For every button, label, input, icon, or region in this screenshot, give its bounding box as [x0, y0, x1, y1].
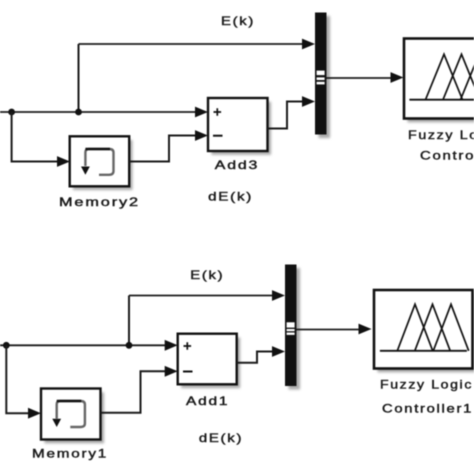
- wire E(k) bottom horizontal: [129, 290, 285, 301]
- wire Memory2 out to Add3 minus: [129, 130, 208, 161]
- block Fuzzy Logic Controller2: [404, 39, 474, 123]
- wire Mux out to Fuzzy Logic Controller: [327, 72, 404, 83]
- mux Mux2 (vertical bar): [315, 13, 330, 139]
- wire input bus to Add1 plus: [0, 340, 178, 351]
- svg-text:dE(k): dE(k): [199, 431, 243, 445]
- wire Add1 out to Mux: [237, 346, 285, 363]
- svg-text:Memory1: Memory1: [32, 446, 108, 460]
- svg-text:E(k): E(k): [190, 268, 224, 282]
- svg-text:dE(k): dE(k): [208, 189, 253, 203]
- wire input bus to Add3 plus: [0, 107, 208, 118]
- block Add3: [208, 98, 271, 155]
- svg-text:Controller1: Controller1: [382, 401, 473, 415]
- block Memory2: [70, 136, 133, 190]
- svg-text:Controller2: Controller2: [420, 149, 474, 163]
- junction dot riser: [75, 109, 82, 116]
- block Add1: [178, 334, 241, 388]
- wire Add3 out to Mux: [268, 96, 316, 128]
- svg-text:Fuzzy Logic: Fuzzy Logic: [380, 377, 473, 391]
- label Fuzzy Logic Controller1: [380, 377, 473, 415]
- wire Mux out to Fuzzy Logic Controller1: [297, 324, 372, 335]
- svg-text:E(k): E(k): [221, 14, 255, 28]
- junction dot bottom riser: [126, 342, 133, 349]
- wire vertical riser bottom: [128, 296, 130, 346]
- block Memory1: [41, 389, 104, 444]
- junction dot bottom-left: [3, 342, 10, 349]
- svg-text:Add1: Add1: [186, 394, 229, 408]
- wire feed to Memory2: [12, 112, 70, 167]
- junction dot left: [8, 109, 15, 116]
- svg-text:Fuzzy Logic: Fuzzy Logic: [408, 128, 474, 142]
- mux Mux1 (vertical bar): [285, 265, 300, 390]
- wire vertical riser to E(k): [78, 44, 80, 112]
- svg-text:Memory2: Memory2: [59, 195, 140, 209]
- wire E(k) top horizontal: [79, 39, 316, 50]
- wire feed to Memory1: [6, 345, 41, 418]
- svg-text:Add3: Add3: [215, 158, 260, 172]
- label Fuzzy Logic Controller2: [408, 128, 474, 163]
- block Fuzzy Logic Controller1: [374, 290, 474, 372]
- wire Memory1 out to Add1 minus: [101, 366, 178, 413]
